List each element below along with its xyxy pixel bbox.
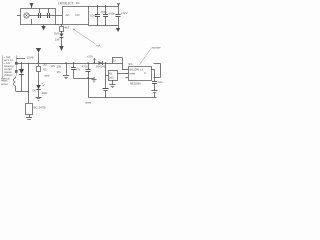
- LED D6: [33, 83, 48, 98]
- svg-text:14: 14: [113, 59, 117, 63]
- bottom joining wire: [56, 24, 63, 26]
- svg-text:5V1: 5V1: [54, 32, 60, 36]
- svg-text:DC: DC: [76, 13, 80, 17]
- resistor R5 branch: [37, 63, 50, 86]
- AC source symbol: [24, 13, 29, 18]
- svg-text:mA: mA: [96, 44, 101, 48]
- antenna arrow TOP: [30, 3, 34, 8]
- ground arrow under cap bank: [116, 25, 120, 32]
- output loop bracket: [154, 64, 161, 78]
- capacitor C2: [100, 6, 108, 25]
- svg-text:4k7: 4k7: [65, 26, 70, 30]
- capacitor C1: [90, 6, 100, 25]
- svg-text:10k: 10k: [57, 65, 62, 69]
- svg-text:NE555N: NE555N: [130, 82, 141, 86]
- svg-text:12V6: 12V6: [27, 56, 34, 60]
- resistor R2 branch with ground: [57, 63, 70, 79]
- leader line note 1: [73, 29, 101, 48]
- main bus wire +12V: [17, 63, 123, 65]
- capacitor C5 branch: [82, 63, 91, 78]
- capacitor C4 branch: [71, 63, 81, 78]
- svg-text:1N4148: 1N4148: [96, 65, 106, 69]
- svg-text:rood: rood: [44, 74, 50, 78]
- svg-text:D6: D6: [33, 89, 37, 93]
- svg-text:BC 547B: BC 547B: [34, 106, 46, 110]
- capacitor C3: [109, 6, 121, 25]
- svg-text:mass: mass: [85, 102, 92, 105]
- ground right column: [152, 91, 158, 98]
- internal wire: [29, 15, 56, 17]
- svg-text:10u: 10u: [158, 80, 163, 84]
- svg-text:100n: 100n: [109, 12, 116, 16]
- svg-text:relais: relais: [1, 79, 8, 83]
- wire T1 to U1: [56, 15, 62, 17]
- supply stub up at corner: [117, 3, 120, 6]
- bottom rail wire: [88, 25, 118, 27]
- diode D5 branch: [19, 63, 24, 91]
- svg-text:4700: 4700: [82, 65, 89, 69]
- svg-text:470u: 470u: [100, 10, 107, 14]
- svg-text:202: 202: [109, 76, 114, 80]
- ground arrow under T1: [41, 25, 46, 31]
- node stub inside box: [31, 19, 33, 25]
- ground under U3: [110, 80, 116, 88]
- fuse F1: [39, 9, 41, 19]
- svg-text:LED: LED: [42, 91, 47, 95]
- ground under Q1: [26, 118, 32, 120]
- svg-text:IC1: IC1: [128, 62, 133, 66]
- supply stub into bus: [94, 59, 96, 64]
- mid ground rail: [74, 78, 95, 80]
- svg-text:12V: 12V: [51, 64, 56, 68]
- transistor Q1 box: [26, 104, 46, 118]
- svg-text:R5: R5: [43, 68, 47, 72]
- microcontroller U2 box: [129, 67, 152, 81]
- supply arrow down A: [59, 46, 63, 51]
- svg-text:47u: 47u: [76, 68, 81, 72]
- bus step to IC: [112, 58, 128, 70]
- ground under mid rail: [92, 80, 97, 83]
- riser to bottom bus: [88, 78, 90, 98]
- capacitor C6 column: [103, 63, 109, 98]
- junction dots on bus: [21, 62, 106, 63]
- diode D4 on bus: [96, 61, 106, 69]
- top rail wire: [88, 6, 118, 8]
- wire bus to Q1: [28, 63, 30, 103]
- connector attach blobs: [15, 62, 18, 65]
- bottom bus wire: [89, 97, 157, 99]
- connector J1 body: [2, 56, 4, 79]
- regulator module U1: [63, 7, 89, 25]
- svg-text:D2: D2: [76, 1, 80, 5]
- input stub: [17, 15, 21, 17]
- relay coil K1: [14, 77, 29, 92]
- capacitor C7 output: [152, 70, 164, 91]
- opto module U3: [106, 71, 129, 81]
- svg-text:AC: AC: [66, 13, 70, 17]
- switch S1: [48, 9, 50, 19]
- svg-text:zonder: zonder: [152, 46, 161, 50]
- svg-text:1k5: 1k5: [43, 63, 48, 67]
- svg-text:1W: 1W: [55, 38, 60, 42]
- zener diode D3: [54, 32, 64, 47]
- stub row 2 wire: [17, 58, 26, 60]
- svg-text:+12V: +12V: [87, 55, 94, 59]
- svg-text:3: 3: [144, 71, 146, 75]
- U2 left pins: [126, 74, 129, 78]
- svg-text:1%: 1%: [57, 70, 62, 74]
- mains input box T1: [21, 9, 56, 25]
- resistor R1 below U1: [60, 24, 70, 34]
- svg-text:spoel: spoel: [1, 82, 8, 86]
- connector pin labels: [4, 56, 14, 77]
- svg-text:+12V: +12V: [121, 11, 128, 15]
- arrow down B feeding bus: [36, 48, 41, 63]
- svg-text:100n: 100n: [90, 14, 97, 18]
- ground under LED: [36, 98, 42, 101]
- junction dots top rails: [97, 5, 106, 25]
- svg-text:teller: teller: [130, 72, 136, 76]
- leader line note 2: [140, 46, 161, 65]
- svg-text:BU2090 12: BU2090 12: [130, 68, 144, 72]
- svg-text:LM7812CT: LM7812CT: [58, 2, 74, 6]
